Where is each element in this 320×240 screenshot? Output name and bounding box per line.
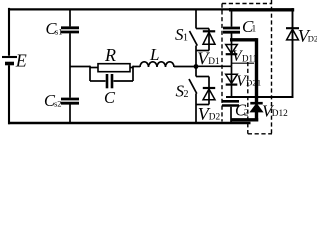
node midpoint dot [194, 64, 199, 69]
label VD2 [198, 104, 221, 124]
wire E row to RC [70, 66, 90, 68]
wire top border bold segment [229, 8, 294, 11]
label VD1 [197, 48, 220, 68]
wire RC right bar [132, 66, 134, 81]
label C1 [242, 17, 257, 36]
dashed box B bottom edge [248, 133, 272, 135]
capacitor Cs2 [61, 67, 79, 124]
wire left border upper [8, 8, 10, 56]
label S1 [175, 25, 188, 44]
resistor R [90, 64, 133, 72]
wire bottom border [8, 122, 251, 125]
svg-text:C: C [104, 88, 116, 107]
wire RC left bar [89, 66, 91, 81]
svg-text:1: 1 [252, 25, 257, 35]
svg-text:R: R [104, 45, 116, 65]
svg-text:D12: D12 [272, 109, 288, 119]
capacitor C2 [222, 101, 239, 123]
wire S2-VD2 upper stub [196, 76, 209, 78]
capacitor C1 [223, 9, 240, 39]
svg-text:L: L [149, 45, 159, 64]
svg-text:s2: s2 [54, 99, 62, 109]
wire bar to L [133, 66, 140, 68]
inductor L [140, 62, 174, 67]
capacitor Cs1 [61, 9, 79, 67]
wire clamp rail y97 [226, 96, 293, 98]
label C2 [235, 101, 249, 120]
wire right border branch lower [292, 40, 294, 98]
svg-text:D22: D22 [308, 33, 317, 43]
dashed box B left edge [247, 62, 249, 134]
svg-text:D11: D11 [242, 54, 257, 64]
wire bold snubber path top [230, 38, 257, 41]
label VD12 [262, 101, 288, 120]
wire right border branch upper [292, 8, 294, 40]
switch S2 [189, 67, 197, 124]
diode VD22 [286, 28, 299, 40]
wire midpoint to clamp chain [196, 65, 232, 67]
dashed box A left edge [221, 4, 223, 122]
diode VD11 [226, 40, 238, 67]
label VD22 [298, 26, 320, 46]
svg-text:E: E [15, 50, 27, 70]
diode VD2 [203, 77, 215, 105]
dashed box A top edge [222, 3, 272, 5]
wire left border lower [8, 65, 10, 124]
svg-text:D2: D2 [209, 112, 221, 122]
diode VD21 [226, 66, 238, 98]
wire top border [8, 8, 231, 10]
battery E [2, 57, 17, 64]
svg-text:1: 1 [183, 32, 188, 43]
capacitor C [90, 74, 133, 88]
svg-text:s1: s1 [55, 26, 63, 36]
label Cs2 [44, 91, 62, 110]
wire bold snubber bottom jog [231, 112, 259, 122]
label VD11 underlined [232, 48, 257, 65]
wire bold snubber vertical [255, 38, 258, 103]
wire S2-VD2 lower stub [196, 104, 209, 106]
label Cs1 [46, 19, 63, 38]
diode VD12 bold [250, 103, 262, 111]
wire S1-VD1 upper stub [196, 28, 209, 30]
diode VD1 [203, 29, 215, 51]
switch S1 [190, 9, 198, 67]
svg-text:2: 2 [184, 89, 189, 100]
label S2 [176, 82, 189, 101]
svg-text:D1: D1 [208, 57, 220, 67]
wire S1-VD1 lower stub [196, 50, 209, 52]
wire L to midpoint [174, 66, 196, 68]
dashed box right edge [271, 0, 273, 134]
label VD21 [236, 73, 261, 90]
